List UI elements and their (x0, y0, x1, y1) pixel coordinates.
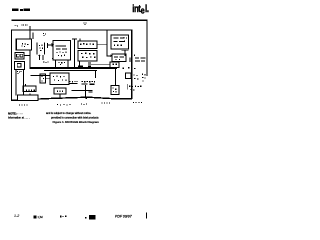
svg-text:int: int (132, 3, 141, 14)
svg-text:1-2: 1-2 (14, 214, 19, 218)
svg-text:l.: l. (145, 3, 149, 14)
svg-text:.. . .. .: .. . .. . (17, 112, 24, 115)
svg-text:NOTE:: NOTE: (8, 111, 17, 115)
svg-text:Figure 1. 8XC51GB Block Diagra: Figure 1. 8XC51GB Block Diagram (53, 120, 100, 124)
svg-text:Information at . . . .: Information at . . . . (8, 115, 30, 119)
svg-text::(.M: :(.M (38, 215, 44, 219)
svg-text:provided in connection with In: provided in connection with Intel produc… (51, 115, 99, 119)
svg-text:PDF 09/97: PDF 09/97 (115, 214, 133, 218)
svg-text:and is subject to change witho: and is subject to change without notice. (46, 111, 92, 115)
